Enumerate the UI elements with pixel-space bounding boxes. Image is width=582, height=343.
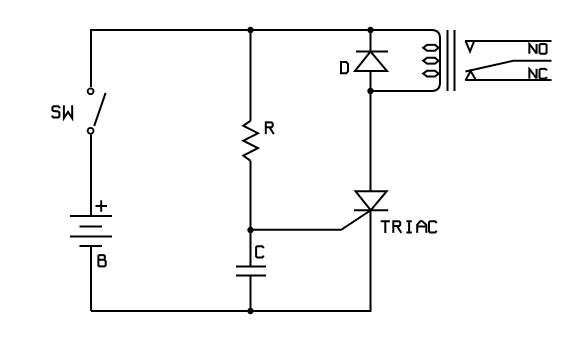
label NC [529,69,536,79]
switch SW [88,88,106,133]
battery B [70,216,112,246]
wire bottom rail [91,210,371,311]
label R [266,122,274,134]
wire diode to node [370,71,372,91]
node junction bottom [247,308,253,314]
label NO [529,44,536,54]
label B [98,255,105,266]
label TRIAC [381,221,390,233]
wire switch to battery [90,135,92,216]
relay core [448,30,455,91]
wire node to triac [370,91,372,191]
wire triac gate [251,210,371,230]
node junction diode/coil/triac [367,88,373,94]
label C [256,246,263,257]
wire battery to bottom rail [90,246,92,311]
node junction gate tap [247,227,253,233]
node junction top-D [367,27,373,33]
relay common armature [466,61,552,72]
relay coil K [371,30,441,91]
label D [340,62,348,73]
diode D [355,52,388,72]
wire capacitor to bottom rail [250,276,252,312]
resistor R [243,121,258,161]
relay contact NO [465,41,552,52]
wire resistor to capacitor [250,161,252,267]
node junction top-R [247,27,253,33]
wire top rail [91,30,431,87]
wire top rail to diode [370,30,372,52]
wire top rail to resistor [250,30,252,121]
triac Q [354,191,388,210]
label + (battery polarity) [96,200,108,211]
relay contact NC [465,71,552,80]
capacitor C [236,267,266,276]
label SW [52,106,59,117]
